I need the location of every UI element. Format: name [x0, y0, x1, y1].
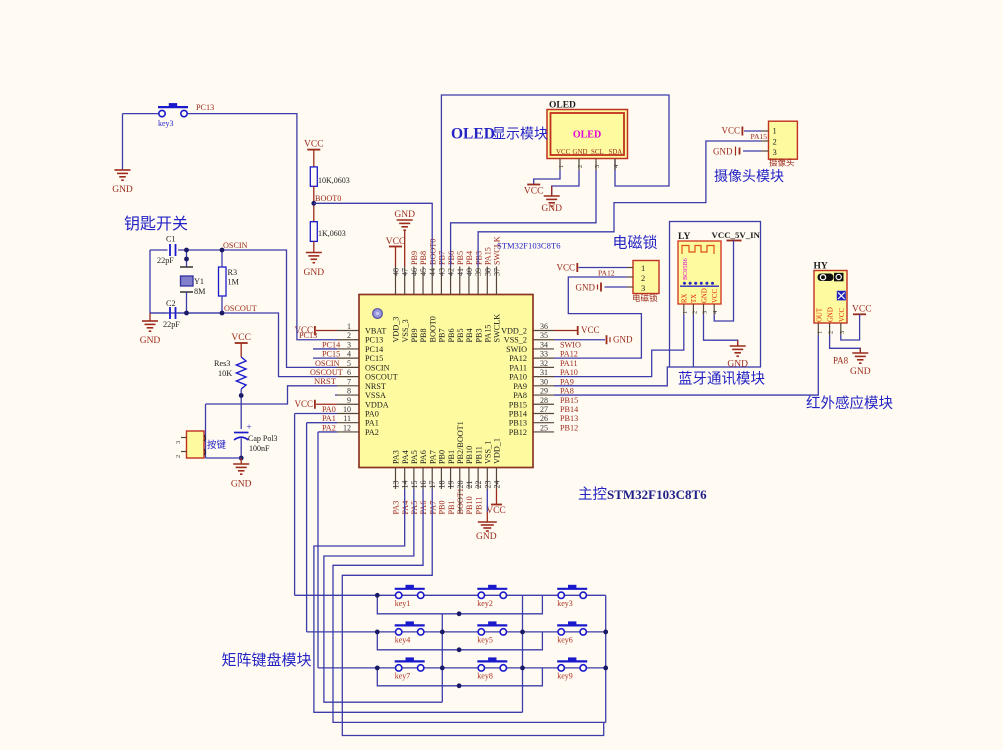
svg-text:2: 2: [577, 165, 584, 168]
svg-text:VCC: VCC: [581, 325, 600, 335]
svg-text:PB3: PB3: [474, 328, 483, 342]
svg-text:OUT: OUT: [816, 307, 823, 322]
svg-text:PC13: PC13: [196, 103, 214, 112]
svg-text:PA7: PA7: [428, 501, 437, 515]
svg-text:SDA: SDA: [609, 149, 623, 156]
svg-text:VCC: VCC: [721, 126, 740, 136]
svg-text:VCC: VCC: [304, 140, 324, 150]
svg-text:PB11: PB11: [474, 446, 483, 464]
svg-text:22pF: 22pF: [163, 320, 180, 329]
svg-text:GND: GND: [828, 307, 835, 322]
svg-text:GND: GND: [701, 288, 708, 303]
svg-text:1: 1: [682, 311, 689, 314]
svg-text:PC15: PC15: [322, 350, 340, 359]
svg-text:37: 37: [492, 268, 501, 276]
svg-text:17: 17: [428, 481, 437, 489]
svg-text:OLED: OLED: [451, 126, 495, 143]
svg-text:C2: C2: [166, 299, 176, 308]
svg-text:27: 27: [540, 405, 548, 414]
svg-text:PA11: PA11: [560, 359, 578, 368]
svg-text:PB8: PB8: [419, 328, 428, 342]
svg-text:PC14: PC14: [365, 345, 383, 354]
svg-text:PA12: PA12: [598, 269, 615, 278]
svg-text:10: 10: [343, 405, 351, 414]
svg-text:VDD_3: VDD_3: [392, 317, 401, 343]
svg-text:OSCIN: OSCIN: [365, 363, 390, 372]
svg-text:Res3: Res3: [214, 359, 230, 368]
svg-text:13: 13: [392, 481, 401, 489]
svg-text:7: 7: [347, 377, 351, 386]
svg-text:摄像头模块: 摄像头模块: [714, 169, 784, 185]
svg-text:2: 2: [691, 311, 698, 314]
svg-text:22pF: 22pF: [157, 256, 174, 265]
svg-text:BC05B6: BC05B6: [682, 258, 689, 280]
svg-text:PA6: PA6: [419, 450, 428, 464]
svg-text:PA2: PA2: [365, 428, 379, 437]
svg-text:PB5: PB5: [456, 251, 465, 265]
svg-text:VCC: VCC: [231, 333, 251, 343]
svg-text:GND: GND: [713, 147, 733, 157]
svg-text:PB4: PB4: [465, 251, 474, 265]
svg-text:SCL: SCL: [591, 149, 604, 156]
svg-text:PC14: PC14: [322, 340, 340, 349]
svg-text:PB13: PB13: [560, 414, 578, 423]
svg-text:PB14: PB14: [509, 409, 527, 418]
svg-text:33: 33: [540, 350, 548, 359]
svg-text:STM32F103C8T6: STM32F103C8T6: [497, 241, 561, 251]
svg-text:PB3: PB3: [474, 251, 483, 265]
svg-text:40: 40: [465, 268, 474, 276]
svg-text:18: 18: [437, 481, 446, 489]
svg-text:35: 35: [540, 331, 548, 340]
svg-text:NRST: NRST: [365, 382, 386, 391]
svg-text:PA12: PA12: [560, 350, 578, 359]
svg-text:VCC: VCC: [556, 149, 571, 156]
svg-text:PA10: PA10: [560, 368, 578, 377]
svg-text:10K,0603: 10K,0603: [318, 176, 350, 185]
svg-text:GND: GND: [476, 532, 497, 542]
svg-text:OSCOUT: OSCOUT: [365, 373, 398, 382]
svg-text:25: 25: [540, 423, 548, 432]
svg-text:3: 3: [641, 283, 645, 293]
svg-text:PA8: PA8: [560, 387, 574, 396]
svg-text:key3: key3: [557, 599, 573, 608]
svg-text:44: 44: [428, 268, 437, 276]
svg-text:1: 1: [347, 322, 351, 331]
svg-text:TX: TX: [691, 294, 698, 303]
svg-text:PA6: PA6: [419, 501, 428, 515]
svg-text:key5: key5: [477, 635, 493, 644]
svg-text:PB9: PB9: [410, 251, 419, 265]
svg-text:2: 2: [773, 137, 777, 147]
svg-text:PA12: PA12: [509, 354, 527, 363]
svg-text:OSCIN: OSCIN: [315, 359, 340, 368]
svg-text:42: 42: [447, 268, 456, 276]
svg-text:+: +: [247, 422, 252, 432]
svg-text:8: 8: [347, 387, 351, 396]
svg-text:PA8: PA8: [513, 391, 527, 400]
svg-text:1: 1: [773, 126, 777, 136]
svg-text:电磁锁: 电磁锁: [613, 235, 658, 252]
svg-text:VSS_3: VSS_3: [401, 319, 410, 342]
svg-text:key8: key8: [477, 671, 493, 680]
svg-text:PA7: PA7: [428, 450, 437, 464]
svg-text:31: 31: [540, 368, 548, 377]
svg-text:OSCIN: OSCIN: [223, 241, 248, 250]
svg-text:VSS_1: VSS_1: [484, 441, 493, 464]
svg-text:PB7: PB7: [438, 328, 447, 342]
svg-text:钥匙开关: 钥匙开关: [124, 215, 188, 233]
svg-text:主控STM32F103C8T6: 主控STM32F103C8T6: [578, 486, 707, 503]
svg-text:PA9: PA9: [560, 377, 574, 386]
svg-text:C1: C1: [166, 235, 176, 244]
svg-text:BOOT0: BOOT0: [315, 194, 341, 203]
svg-text:OLED: OLED: [573, 130, 601, 141]
svg-text:GND: GND: [576, 283, 596, 293]
svg-text:GND: GND: [112, 185, 133, 195]
svg-text:GND: GND: [850, 367, 871, 377]
svg-text:PB1: PB1: [447, 500, 456, 514]
svg-text:电磁锁: 电磁锁: [632, 293, 658, 303]
svg-text:PB12: PB12: [560, 423, 578, 432]
svg-text:1K,0603: 1K,0603: [318, 229, 346, 238]
svg-text:VCC: VCC: [712, 289, 719, 303]
svg-text:12: 12: [343, 423, 351, 432]
svg-text:PA0: PA0: [322, 405, 336, 414]
svg-text:10K: 10K: [218, 369, 232, 378]
svg-text:key3: key3: [158, 119, 174, 128]
svg-text:38: 38: [483, 268, 492, 276]
svg-text:22: 22: [474, 481, 483, 489]
svg-text:9: 9: [347, 396, 351, 405]
svg-text:PA5: PA5: [410, 501, 419, 515]
svg-text:PB15: PB15: [560, 396, 578, 405]
svg-text:矩阵键盘模块: 矩阵键盘模块: [222, 651, 312, 669]
svg-text:GND: GND: [140, 336, 161, 346]
svg-text:PA4: PA4: [401, 501, 410, 515]
svg-text:39: 39: [474, 268, 483, 276]
svg-text:28: 28: [540, 396, 548, 405]
svg-text:按键: 按键: [207, 439, 227, 451]
svg-text:VSS_2: VSS_2: [504, 336, 527, 345]
svg-text:VCC: VCC: [486, 506, 506, 516]
svg-text:41: 41: [456, 268, 465, 276]
svg-text:100nF: 100nF: [249, 444, 270, 453]
svg-text:PA15: PA15: [484, 247, 493, 265]
svg-text:key1: key1: [395, 599, 411, 608]
svg-text:2: 2: [641, 273, 645, 283]
svg-text:VDDA: VDDA: [365, 400, 389, 409]
svg-text:PB13: PB13: [509, 419, 527, 428]
svg-text:GND: GND: [573, 149, 588, 156]
svg-text:6: 6: [347, 368, 351, 377]
svg-text:3: 3: [702, 311, 709, 314]
svg-text:VSSA: VSSA: [365, 391, 386, 400]
svg-text:2: 2: [347, 331, 351, 340]
svg-text:1: 1: [816, 331, 823, 334]
svg-text:15: 15: [410, 481, 419, 489]
svg-text:VCC: VCC: [556, 263, 575, 273]
svg-text:红外感应模块: 红外感应模块: [806, 394, 893, 412]
svg-text:GND: GND: [394, 210, 415, 220]
svg-text:BOOT1: BOOT1: [456, 488, 465, 514]
svg-text:PB5: PB5: [456, 328, 465, 342]
svg-text:显示模块: 显示模块: [492, 127, 548, 143]
svg-text:SWIO: SWIO: [560, 340, 581, 349]
svg-text:GND: GND: [541, 204, 562, 214]
svg-text:VCC: VCC: [852, 305, 872, 315]
svg-text:36: 36: [540, 322, 548, 331]
svg-text:PA1: PA1: [322, 414, 336, 423]
svg-text:PB7: PB7: [438, 251, 447, 265]
svg-text:19: 19: [447, 481, 456, 489]
svg-text:PC15: PC15: [365, 354, 383, 363]
svg-text:PA9: PA9: [513, 382, 527, 391]
svg-text:47: 47: [401, 268, 410, 276]
svg-text:VCC_5V_IN: VCC_5V_IN: [712, 230, 761, 240]
svg-text:PB10: PB10: [465, 446, 474, 464]
svg-text:30: 30: [540, 377, 548, 386]
svg-text:PB15: PB15: [509, 400, 527, 409]
svg-text:BOOT0: BOOT0: [428, 239, 437, 265]
svg-text:PB11: PB11: [474, 497, 483, 515]
svg-text:RX: RX: [681, 293, 688, 303]
svg-text:PB6: PB6: [447, 251, 456, 265]
svg-text:PC13: PC13: [299, 331, 317, 340]
svg-text:21: 21: [465, 481, 474, 489]
svg-text:PA10: PA10: [509, 373, 527, 382]
svg-text:14: 14: [401, 481, 410, 489]
svg-text:46: 46: [410, 268, 419, 276]
svg-text:key6: key6: [557, 635, 573, 644]
svg-text:PB0: PB0: [438, 500, 447, 514]
svg-text:蓝牙通讯模块: 蓝牙通讯模块: [678, 371, 765, 388]
svg-text:PB12: PB12: [509, 428, 527, 437]
svg-text:BOOT0: BOOT0: [428, 316, 437, 342]
svg-text:PA1: PA1: [365, 419, 379, 428]
svg-text:29: 29: [540, 387, 548, 396]
svg-text:Cap Pol3: Cap Pol3: [248, 434, 278, 443]
svg-text:PA15: PA15: [751, 132, 768, 141]
svg-text:VCC: VCC: [839, 308, 846, 322]
svg-text:SWCLK: SWCLK: [493, 314, 502, 343]
svg-text:PB2/BOOT1: PB2/BOOT1: [456, 421, 465, 464]
svg-text:VDD_1: VDD_1: [493, 438, 502, 464]
svg-text:PA15: PA15: [484, 325, 493, 343]
svg-text:key2: key2: [477, 599, 493, 608]
svg-text:PA11: PA11: [509, 363, 527, 372]
svg-text:4: 4: [347, 350, 351, 359]
svg-text:key7: key7: [395, 671, 411, 680]
svg-text:SWIO: SWIO: [506, 345, 527, 354]
svg-text:16: 16: [419, 481, 428, 489]
svg-text:VDD_2: VDD_2: [501, 327, 527, 336]
svg-text:PA5: PA5: [410, 450, 419, 464]
svg-text:OSCOUT: OSCOUT: [224, 304, 257, 313]
svg-text:摄像头: 摄像头: [769, 158, 795, 168]
svg-text:PA4: PA4: [401, 450, 410, 464]
svg-text:PB1: PB1: [447, 450, 456, 464]
svg-text:NRST: NRST: [314, 376, 337, 386]
svg-text:PB4: PB4: [465, 328, 474, 342]
svg-text:2: 2: [828, 331, 835, 334]
svg-text:8M: 8M: [194, 287, 206, 296]
svg-text:GND: GND: [613, 335, 633, 345]
svg-text:23: 23: [483, 481, 492, 489]
svg-text:PC13: PC13: [365, 336, 383, 345]
svg-text:PB8: PB8: [419, 251, 428, 265]
svg-text:2: 2: [175, 455, 182, 458]
svg-text:Y1: Y1: [194, 277, 204, 286]
svg-text:PB0: PB0: [438, 450, 447, 464]
svg-text:VCC: VCC: [294, 399, 313, 409]
svg-text:3: 3: [839, 331, 846, 334]
svg-text:GND: GND: [727, 360, 748, 370]
svg-text:43: 43: [437, 268, 446, 276]
svg-text:20: 20: [456, 481, 465, 489]
svg-text:VBAT: VBAT: [365, 327, 386, 336]
svg-text:1M: 1M: [228, 278, 240, 287]
svg-text:1: 1: [641, 263, 645, 273]
svg-text:GND: GND: [304, 268, 325, 278]
svg-text:VCC: VCC: [524, 187, 544, 197]
svg-text:key9: key9: [557, 671, 573, 680]
svg-text:PB6: PB6: [447, 328, 456, 342]
svg-text:3: 3: [594, 165, 601, 168]
svg-text:PB10: PB10: [465, 496, 474, 514]
svg-text:PA3: PA3: [392, 501, 401, 515]
svg-text:PA0: PA0: [365, 409, 379, 418]
svg-text:3: 3: [773, 147, 777, 157]
svg-text:PB9: PB9: [410, 328, 419, 342]
svg-text:34: 34: [540, 340, 548, 349]
svg-text:R3: R3: [228, 268, 238, 277]
svg-text:48: 48: [392, 268, 401, 276]
svg-text:3: 3: [347, 340, 351, 349]
svg-text:45: 45: [419, 268, 428, 276]
svg-text:PB14: PB14: [560, 405, 578, 414]
svg-text:11: 11: [343, 414, 351, 423]
svg-text:PA2: PA2: [322, 423, 336, 432]
svg-text:32: 32: [540, 359, 548, 368]
svg-text:key4: key4: [395, 635, 411, 644]
svg-text:VCC: VCC: [386, 237, 406, 247]
svg-text:GND: GND: [231, 480, 252, 490]
svg-text:PA8: PA8: [833, 356, 849, 366]
svg-text:PA3: PA3: [392, 450, 401, 464]
svg-text:1: 1: [558, 165, 565, 168]
svg-text:24: 24: [492, 481, 501, 489]
svg-text:26: 26: [540, 414, 548, 423]
svg-text:3: 3: [175, 441, 182, 444]
svg-text:5: 5: [347, 359, 351, 368]
